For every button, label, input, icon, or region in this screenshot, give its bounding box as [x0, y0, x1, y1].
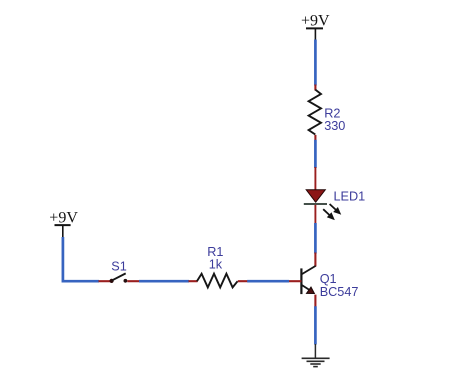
LED LED1	[304, 167, 340, 224]
wire	[314, 140, 317, 168]
svg-text:S1: S1	[111, 260, 127, 274]
svg-text:LED1: LED1	[334, 190, 366, 204]
wire	[63, 237, 99, 281]
svg-text:+9V: +9V	[49, 210, 78, 227]
resistor R2	[309, 85, 321, 141]
ground	[302, 344, 330, 367]
svg-text:BC547: BC547	[320, 285, 359, 299]
svg-text:+9V: +9V	[301, 13, 330, 30]
wire	[314, 223, 317, 254]
wire	[314, 40, 317, 86]
power +9V (left)	[49, 210, 78, 238]
switch S1	[99, 273, 140, 283]
wire	[139, 280, 189, 283]
svg-text:330: 330	[324, 119, 345, 133]
wire	[247, 280, 289, 283]
resistor R1	[189, 274, 248, 288]
wire	[314, 306, 317, 344]
power +9V (top)	[301, 13, 330, 41]
svg-text:1k: 1k	[209, 258, 223, 272]
transistor Q1	[289, 253, 316, 308]
